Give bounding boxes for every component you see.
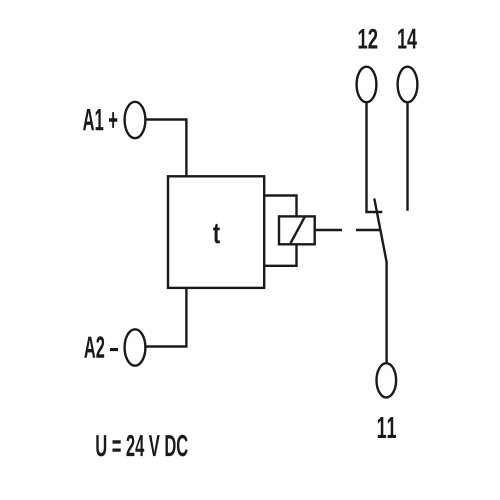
terminal 14 [398,67,418,103]
label U = 24 V DC [96,435,187,457]
terminal 11 [377,363,397,397]
contact lever [374,199,386,263]
wire lever to terminal 11 [385,261,387,364]
label t [213,224,220,244]
contact tick 12 [365,211,382,213]
terminal 12 [357,67,377,103]
coil symbol rect [279,216,315,244]
coil output line [315,229,342,231]
wire 12 [365,102,367,212]
wire timer box to A2 [145,288,186,347]
linkage dash [356,229,380,231]
coil diagonal [290,217,304,244]
timer box K1 [168,176,264,288]
label A2 - [84,336,118,358]
coil bracket bottom stub [264,244,296,265]
label A1 + [83,109,117,130]
wire A1 to timer box [145,120,186,177]
wire 14 [406,102,408,210]
label 12 [359,29,378,49]
terminal A2 [125,329,146,365]
label 14 [398,29,417,49]
coil bracket top stub [264,196,296,217]
terminal A1 [125,102,146,138]
label 11 [378,417,396,438]
